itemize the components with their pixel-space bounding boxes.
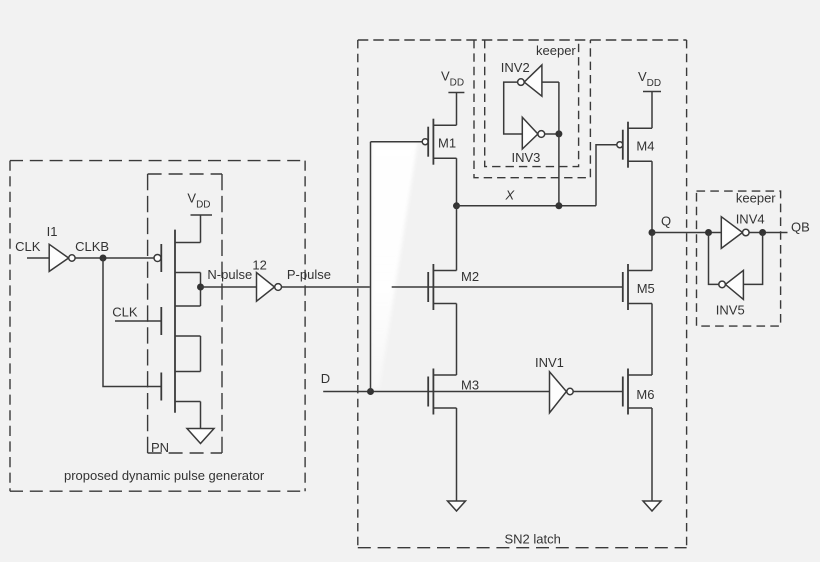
box: proposed dynamic pulse generator <box>10 161 305 492</box>
wire INV1 out to M6 gate <box>573 391 622 393</box>
wire N-pulse <box>201 286 257 288</box>
transistor M5 (NMOS) <box>623 264 652 310</box>
wire PN channel line <box>174 230 176 413</box>
inverter INV3 <box>522 117 544 149</box>
white streak artifact (under ink) <box>372 143 418 389</box>
transistor PN T2 (NMOS) <box>161 306 200 336</box>
wire INV2 input from keeper node <box>542 81 559 83</box>
wire PN spine segments <box>200 215 202 428</box>
wire Q to M5 drain <box>651 233 653 271</box>
inverter INV2 <box>518 65 542 96</box>
inverter INV4 <box>721 217 749 249</box>
transistor M1 (PMOS) <box>422 119 456 165</box>
svg-text:X: X <box>505 188 516 203</box>
svg-text:keeper: keeper <box>736 191 776 206</box>
svg-text:P-pulse: P-pulse <box>287 267 331 282</box>
svg-text:INV4: INV4 <box>736 212 765 227</box>
wire INV2 output loop left <box>504 82 523 134</box>
wire M4 drain to Q <box>651 161 653 232</box>
wire M5 source to M6 drain <box>651 304 653 376</box>
inverter I1 <box>49 244 75 271</box>
svg-text:CLK: CLK <box>15 239 41 254</box>
Vdd symbol M1 <box>448 93 464 126</box>
wire INV3 out to keeper node <box>545 133 559 135</box>
wire vertical D to M1 gate <box>370 142 372 392</box>
svg-text:I1: I1 <box>47 224 58 239</box>
wire M3 source to ground <box>456 408 458 501</box>
node INV3 out <box>555 130 562 137</box>
box: SN2 latch <box>358 40 687 548</box>
svg-text:M1: M1 <box>438 135 456 150</box>
Vdd symbol PN <box>191 214 213 216</box>
wire P-pulse to M2/M5 gates (gap at crossover with D/M1 vertical) <box>282 286 370 288</box>
box: PN <box>148 174 222 453</box>
wire CLKB <box>75 257 154 259</box>
wire M1 drain to X <box>456 158 458 206</box>
inverter INV5 <box>719 270 744 299</box>
svg-text:M5: M5 <box>637 281 655 296</box>
wire M6 source to ground <box>651 408 653 501</box>
svg-text:QB: QB <box>791 220 810 235</box>
svg-text:M2: M2 <box>461 269 479 284</box>
svg-text:Q: Q <box>661 214 671 229</box>
node N-pulse <box>197 284 204 291</box>
wire M1 gate <box>371 141 423 143</box>
svg-text:CLK: CLK <box>112 305 138 320</box>
node keeper right left junction <box>705 229 712 236</box>
svg-text:N-pulse: N-pulse <box>207 267 252 282</box>
svg-text:INV5: INV5 <box>716 303 745 318</box>
svg-text:INV2: INV2 <box>501 60 530 75</box>
svg-text:PN: PN <box>151 440 169 455</box>
svg-text:M6: M6 <box>636 387 654 402</box>
wire QB loop down <box>743 233 762 285</box>
ground M6 <box>643 501 661 511</box>
svg-text:M4: M4 <box>636 139 654 154</box>
node D junction <box>367 388 374 395</box>
svg-text:CLKB: CLKB <box>75 239 109 254</box>
node QB junction <box>759 229 766 236</box>
Vdd symbol M4 <box>643 92 661 129</box>
box: keeper outer (INV2/INV3) <box>474 40 590 178</box>
svg-text:proposed dynamic pulse generat: proposed dynamic pulse generator <box>64 468 265 483</box>
svg-text:INV3: INV3 <box>512 150 541 165</box>
wire X horizontal <box>457 205 597 207</box>
node CLKB <box>100 255 107 262</box>
svg-text:keeper: keeper <box>536 43 576 58</box>
wire X up to M4 gate <box>596 145 617 206</box>
svg-text:12: 12 <box>252 257 266 272</box>
inverter 12 <box>257 273 282 302</box>
inverter INV1 <box>550 372 574 413</box>
transistor PN T1 (PMOS) <box>154 243 201 273</box>
wire M2 source to M3 drain <box>456 304 458 376</box>
transistor PN T3 (NMOS) <box>161 372 200 402</box>
wire D input line <box>323 391 549 393</box>
wire INV5 out loop up <box>709 233 719 285</box>
transistor M3 (NMOS) <box>428 369 456 415</box>
wire CLK input <box>27 257 49 259</box>
wire X to M2 drain <box>456 206 458 271</box>
transistor M4 (PMOS) <box>617 122 652 168</box>
svg-text:SN2 latch: SN2 latch <box>505 532 561 547</box>
node Q <box>649 229 656 236</box>
transistor M2 (NMOS) <box>428 264 456 310</box>
transistor M6 (NMOS) <box>623 369 652 415</box>
wire Q line to QB <box>652 232 788 234</box>
wire CLKB vertical to T3 gate <box>103 258 161 387</box>
ground M3 <box>448 501 466 511</box>
svg-text:INV1: INV1 <box>535 355 564 370</box>
wire CLK to T2 gate <box>115 320 161 322</box>
box: keeper inner (INV2/INV3) <box>485 40 579 167</box>
node X left <box>453 202 460 209</box>
wire keeper vertical to X <box>558 82 560 206</box>
svg-text:D: D <box>321 371 330 386</box>
ground PN <box>187 429 214 444</box>
svg-text:M3: M3 <box>461 378 479 393</box>
box: keeper right (INV4/INV5) <box>697 191 781 326</box>
node X keeper junction <box>555 202 562 209</box>
